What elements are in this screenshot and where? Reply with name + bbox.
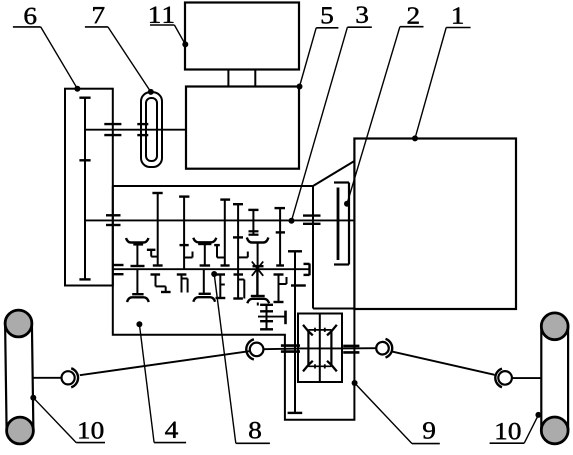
gear L5 xyxy=(216,275,226,299)
left wheel axle stub xyxy=(33,377,61,379)
left wheel xyxy=(5,310,33,444)
diff side gear left xyxy=(307,331,309,365)
gear at partition wall xyxy=(303,216,321,224)
pulley on shaft xyxy=(137,124,148,135)
label 9 xyxy=(352,380,440,444)
countershaft end bevel gear xyxy=(304,264,310,276)
countershaft xyxy=(113,268,310,270)
pto gear train xyxy=(258,303,286,330)
label 3 xyxy=(289,6,372,223)
clutch claw U3 xyxy=(193,238,216,266)
crossed mesh mark xyxy=(252,262,263,276)
label 8 xyxy=(211,271,270,443)
connector box11-box5 xyxy=(228,70,255,87)
box 6 variator housing xyxy=(65,89,113,286)
label 10 right xyxy=(490,412,542,443)
staircase gear L2 xyxy=(151,275,171,293)
right axle xyxy=(342,347,376,349)
h gear L3 xyxy=(177,275,188,293)
clutch claw U1 xyxy=(126,238,149,266)
box 5 engine xyxy=(186,87,299,169)
left wheel u-joint xyxy=(62,368,79,387)
diff bevel marks xyxy=(303,325,337,372)
bearing at left wall main shaft xyxy=(106,215,121,225)
label 4 xyxy=(136,321,186,442)
gear stem S4 xyxy=(233,204,243,298)
axle through differential xyxy=(298,347,342,349)
right wheel axle stub xyxy=(512,377,541,379)
hook gear U2 xyxy=(147,250,158,257)
label 1 xyxy=(412,7,471,141)
label 7 xyxy=(85,7,154,95)
shaft variator to engine 5 xyxy=(85,129,186,131)
right propshaft xyxy=(392,351,495,374)
left inner u-joint xyxy=(246,339,263,359)
gear stem S2 xyxy=(179,197,192,270)
gear stem S1 xyxy=(152,193,162,266)
compartment bottom edge xyxy=(313,308,354,310)
hook gear U4 xyxy=(214,245,225,257)
gear stem S6 xyxy=(275,208,286,265)
differential spider shaft xyxy=(319,314,321,383)
gear stem S5 with synchro xyxy=(248,210,258,235)
gear L6 xyxy=(233,275,244,299)
gear L8 xyxy=(274,275,287,303)
bearing at left wall countershaft xyxy=(113,265,124,274)
gear stem S3 xyxy=(220,200,230,266)
hook gear U5 xyxy=(238,252,248,258)
gear L7 with claw xyxy=(247,269,269,303)
gearbox housing xyxy=(113,161,355,420)
variator vertical shaft xyxy=(79,98,90,280)
main shaft xyxy=(85,219,354,221)
clutch 2 xyxy=(334,183,349,265)
box 1 rear housing xyxy=(354,139,516,310)
label 6 xyxy=(13,8,81,92)
clutch claw S5 xyxy=(247,238,269,297)
bearing at box6 wall on belt shaft xyxy=(104,124,121,135)
left axle xyxy=(263,348,298,351)
belt 7 xyxy=(141,92,162,167)
right inner u-joint xyxy=(376,339,392,358)
label 10 left xyxy=(30,395,105,443)
differential housing xyxy=(298,314,342,383)
final drive gear right xyxy=(343,346,359,353)
pto shaft vertical xyxy=(288,251,306,413)
label 5 xyxy=(297,7,339,89)
gear L1 with claw xyxy=(127,269,149,302)
final drive gear left xyxy=(281,346,300,352)
box 11 engine unit xyxy=(185,3,299,70)
diff side gear right xyxy=(330,331,332,365)
left propshaft xyxy=(80,351,249,375)
label 11 xyxy=(150,7,188,48)
right wheel xyxy=(541,313,568,444)
gear L4 with claw xyxy=(193,269,215,302)
right wheel u-joint xyxy=(495,369,512,388)
label 2 xyxy=(344,7,424,206)
housing partition wall xyxy=(312,186,314,309)
